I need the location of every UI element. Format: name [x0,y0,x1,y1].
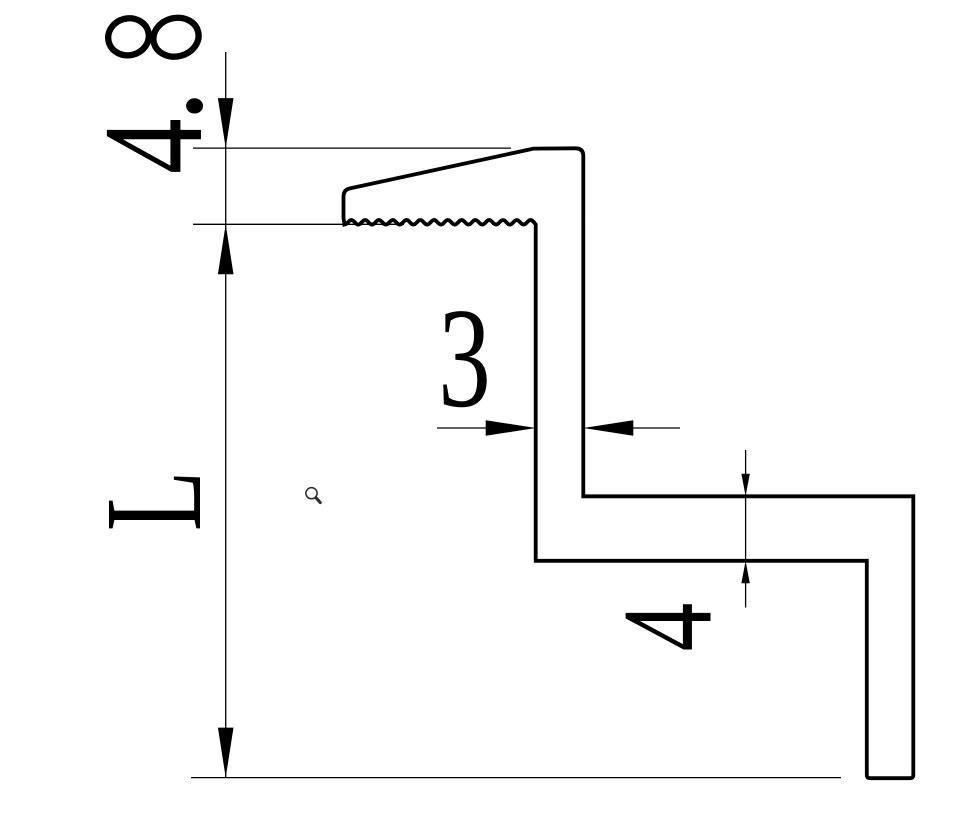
extension line top (y=148, top face) [193,147,511,149]
extension line bottom (y=777, bottom of foot) [191,777,841,779]
profile outline (end-clamp cross-section) with serrated clamping face [344,148,914,778]
small arrow up at arm bottom [741,561,749,584]
dimension 4 (arm thickness) line segments [745,450,747,475]
small arrow down at arm top [741,474,749,497]
svg-text:4: 4 [595,603,738,652]
arrow down at bottom (L dim) [218,728,234,778]
arrow down at top face (4.8 dim) [218,98,234,148]
arrow left at wall right edge [583,420,633,436]
dimension line (vertical, shared by 4.8 and L dims) [225,52,227,778]
arrow right at wall left edge [486,420,536,436]
svg-text:.: . [75,90,233,122]
svg-text:4: 4 [74,118,232,174]
digit 8 of text 4.8 (rotated, drawn as crossing loops) [104,13,203,61]
magnifier cursor icon [306,488,320,503]
extension line middle (y=224, serration line) [193,223,404,225]
svg-text:3: 3 [438,279,491,437]
dimension 3 (wall thickness) line left [437,427,490,429]
svg-text:L: L [77,471,231,532]
arrow up at serration line (4.8 / L dim) [218,224,234,274]
dimension 3 line right [629,427,680,429]
